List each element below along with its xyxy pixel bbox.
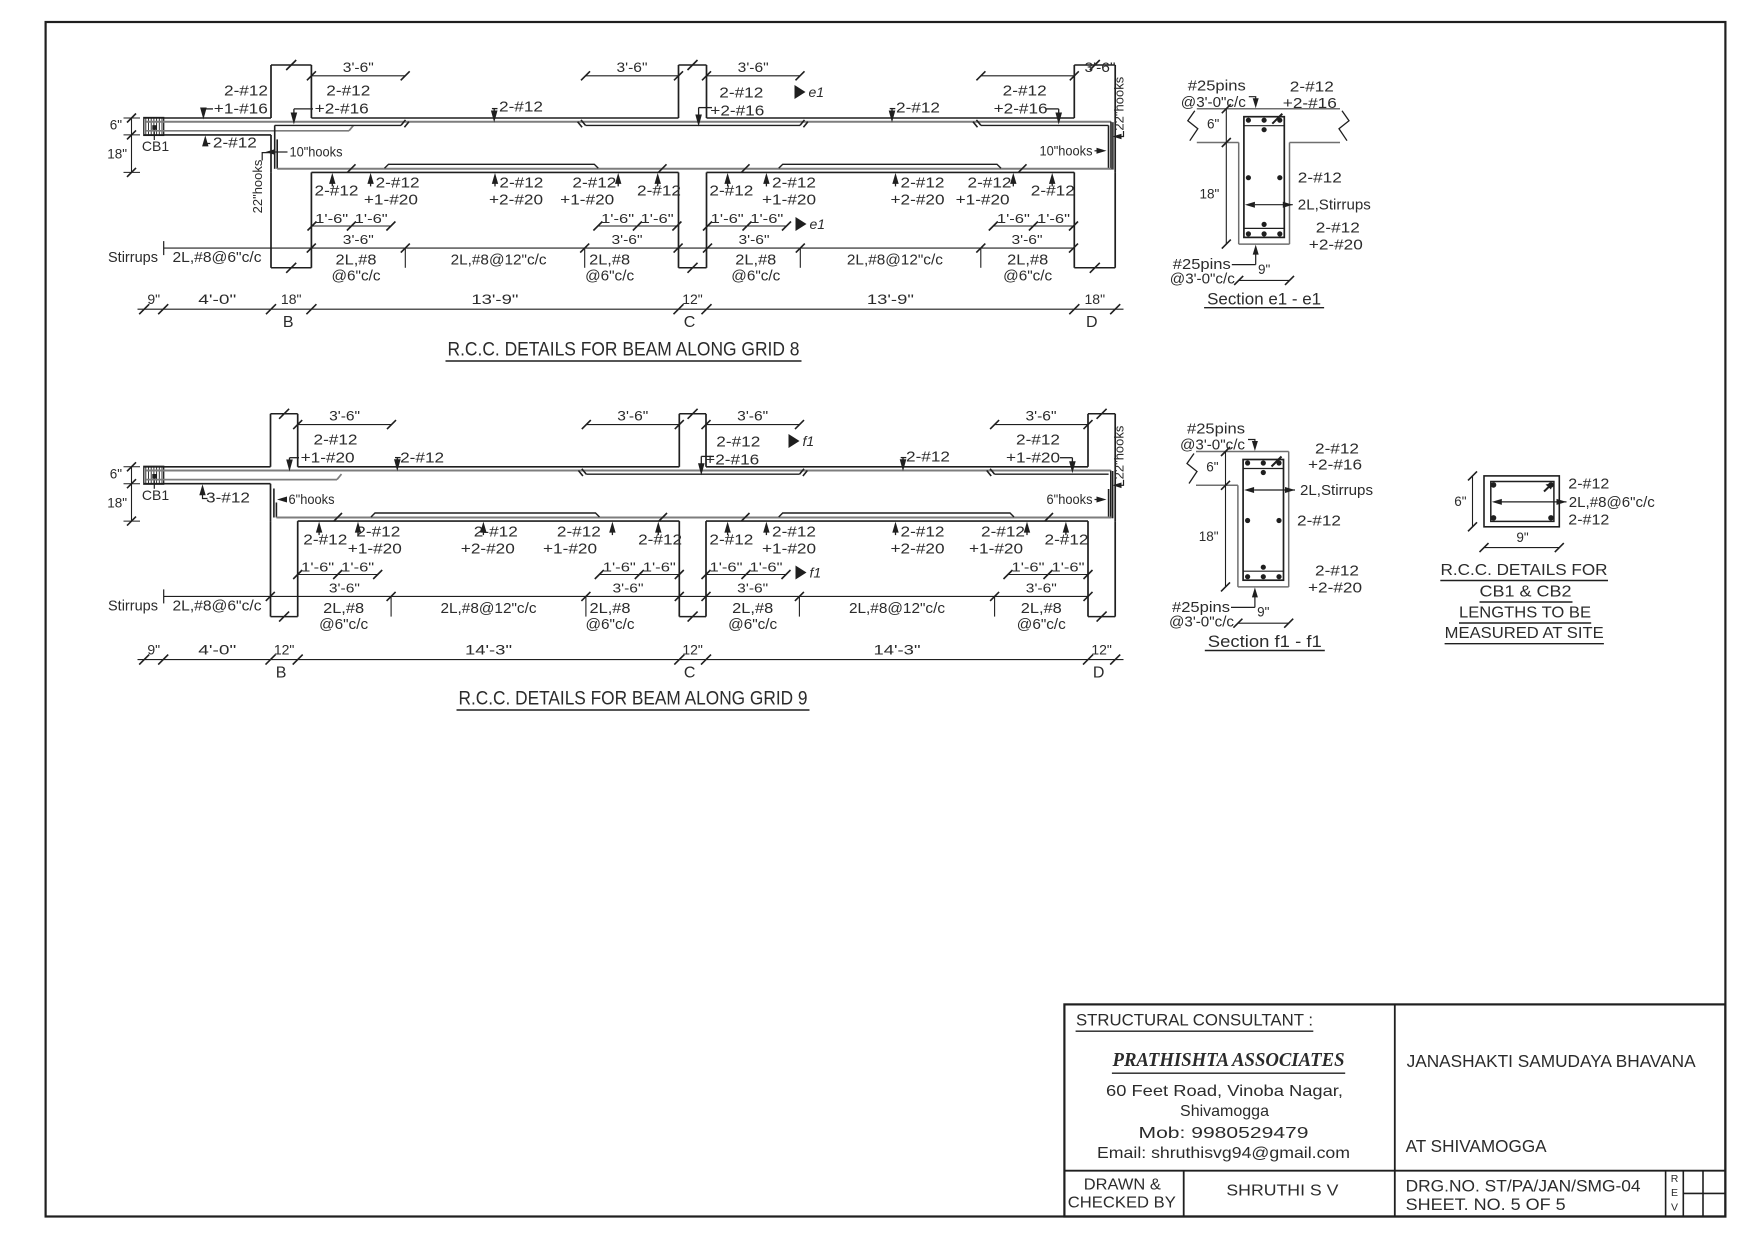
svg-text:10"hooks: 10"hooks [290, 144, 343, 160]
svg-text:+1-#20: +1-#20 [560, 192, 614, 209]
svg-text:2-#12: 2-#12 [968, 175, 1012, 192]
grid 9 dimension 1'-6"+1'-6" at x=599 [599, 574, 679, 576]
grid 8 column B left edge below cantilever [270, 135, 272, 173]
grid 8 column B [270, 65, 272, 118]
svg-text:2-#12: 2-#12 [1298, 170, 1342, 187]
svg-text:22"hooks: 22"hooks [1112, 76, 1127, 130]
svg-text:+2-#20: +2-#20 [461, 540, 515, 557]
svg-text:2-#12: 2-#12 [1315, 562, 1359, 579]
svg-text:+2-#16: +2-#16 [710, 103, 764, 120]
svg-text:+1-#20: +1-#20 [1006, 449, 1060, 466]
grid 8 section marker e1 [796, 217, 807, 231]
svg-text:3'-6": 3'-6" [739, 232, 770, 247]
svg-text:Stirrups: Stirrups [108, 598, 158, 614]
grid 8 bottom second-layer bars span B-C [385, 164, 599, 168]
svg-text:18": 18" [281, 291, 302, 307]
svg-text:@6"c/c: @6"c/c [731, 269, 780, 285]
svg-text:+2-#20: +2-#20 [489, 192, 543, 209]
svg-text:CHECKED BY: CHECKED BY [1068, 1195, 1176, 1212]
svg-text:9": 9" [1516, 530, 1529, 545]
section e1 6 inch dim [1225, 109, 1227, 244]
svg-text:2-#12: 2-#12 [1315, 441, 1359, 458]
grid 8 cantilever bottom bars label 2-#12 [202, 135, 208, 146]
svg-text:2-#12: 2-#12 [400, 449, 444, 466]
svg-text:+2-#16: +2-#16 [705, 451, 759, 468]
svg-text:2L,#8: 2L,#8 [1021, 601, 1062, 617]
grid 9 section marker f1 [796, 566, 807, 580]
CB detail top bar bend arrow [1544, 484, 1552, 491]
svg-text:9": 9" [147, 642, 160, 658]
grid 9 top dimension 3'-6" right of B [298, 424, 392, 426]
grid 8 top rebar line [146, 121, 1111, 123]
section f1 top rebar dots [1245, 460, 1250, 465]
svg-text:@3'-0"c/c: @3'-0"c/c [1170, 272, 1235, 288]
svg-text:R.C.C. DETAILS FOR BEAM ALONG: R.C.C. DETAILS FOR BEAM ALONG GRID 9 [459, 688, 808, 710]
svg-text:3'-6": 3'-6" [738, 60, 769, 75]
svg-text:@6"c/c: @6"c/c [332, 269, 381, 285]
svg-text:+2-#16: +2-#16 [1283, 95, 1337, 112]
svg-text:3'-6": 3'-6" [612, 232, 643, 247]
svg-text:3'-6": 3'-6" [329, 409, 360, 424]
section e1 inner stirrup lines [1244, 125, 1284, 127]
grid 8 cantilever bottom line [144, 134, 271, 136]
grid 8 dimension 1'-6"+1'-6" at x=708 [708, 225, 787, 227]
grid 9 column C [678, 414, 680, 467]
grid 9 stirrup zones dimension line [164, 595, 1088, 597]
CB detail 6 inch dim [1472, 476, 1474, 527]
svg-text:1'-6": 1'-6" [1037, 211, 1070, 226]
svg-text:3'-6": 3'-6" [613, 580, 644, 595]
svg-text:+2-#20: +2-#20 [891, 192, 945, 209]
section e1 2L,Stirrups label with arrows [1245, 202, 1255, 208]
grid 9 cantilever block CB1 hatched [144, 466, 164, 484]
grid 9 left hooks label 6"hooks [277, 497, 287, 503]
CB detail stirrup label 2L,#8@6"c/c with arrows [1492, 499, 1502, 505]
section f1 web outline [1237, 485, 1239, 587]
svg-text:R: R [1671, 1173, 1679, 1185]
svg-text:2L,#8: 2L,#8 [323, 601, 364, 617]
svg-text:CB1: CB1 [142, 487, 169, 503]
svg-text:2L,Stirrups: 2L,Stirrups [1300, 482, 1373, 499]
svg-text:V: V [1671, 1202, 1678, 1214]
svg-text:R.C.C. DETAILS FOR BEAM ALONG: R.C.C. DETAILS FOR BEAM ALONG GRID 8 [448, 339, 800, 361]
svg-text:2L,#8: 2L,#8 [735, 253, 776, 269]
grid 9 extra top bars over C with bends [586, 473, 799, 475]
svg-text:2-#12: 2-#12 [224, 83, 268, 100]
svg-text:60 Feet Road, Vinoba Nagar,: 60 Feet Road, Vinoba Nagar, [1106, 1083, 1343, 1100]
section e1 bottom rebar dots [1246, 231, 1251, 236]
svg-text:B: B [283, 314, 294, 331]
section f1 second top bar dot [1261, 470, 1266, 475]
svg-text:2L,#8@6"c/c: 2L,#8@6"c/c [173, 598, 262, 614]
svg-text:9": 9" [1257, 605, 1270, 620]
svg-text:JANASHAKTI SAMUDAYA BHAVANA: JANASHAKTI SAMUDAYA BHAVANA [1407, 1051, 1696, 1071]
svg-text:Stirrups: Stirrups [108, 250, 158, 266]
svg-text:@6"c/c: @6"c/c [728, 617, 777, 633]
svg-text:@6"c/c: @6"c/c [586, 617, 635, 633]
grid 8 bottom rebar line [277, 168, 1111, 170]
svg-text:12": 12" [274, 642, 295, 658]
svg-text:14'-3": 14'-3" [874, 642, 921, 658]
grid 8 bottom dimension line [138, 308, 1124, 310]
grid 9 extra top bars over D with hook down [995, 473, 1109, 475]
svg-text:3'-6": 3'-6" [343, 232, 374, 247]
svg-text:22"hooks: 22"hooks [1112, 425, 1127, 479]
svg-text:22"hooks: 22"hooks [250, 159, 265, 213]
CB detail stirrup rectangle [1491, 482, 1554, 522]
section e1 top rebar dots [1246, 118, 1251, 123]
svg-text:2-#12: 2-#12 [716, 433, 760, 450]
svg-text:2-#12: 2-#12 [906, 448, 950, 465]
svg-text:+1-#16: +1-#16 [214, 101, 268, 118]
svg-text:@6"c/c: @6"c/c [319, 617, 368, 633]
grid 9 dimension 1'-6"+1'-6" at x=1008 [1008, 574, 1088, 576]
svg-text:2-#12: 2-#12 [326, 83, 370, 100]
svg-text:1'-6": 1'-6" [643, 560, 676, 575]
grid 9 cantilever bottom line [144, 483, 271, 485]
svg-text:2-#12: 2-#12 [1316, 220, 1360, 237]
grid 9 bottom second-layer bars span C-D [779, 513, 1014, 517]
section e1 stirrup rectangle [1244, 117, 1284, 238]
section f1 slab break mark left [1187, 454, 1197, 484]
svg-text:2-#12: 2-#12 [1016, 431, 1060, 448]
section e1 slab break mark left [1188, 111, 1198, 141]
svg-text:18": 18" [1199, 186, 1219, 201]
svg-text:2-#12: 2-#12 [474, 523, 518, 540]
grid 8 CB1 label + leader [153, 128, 155, 140]
section e1 9 inch bottom dim [1239, 279, 1290, 281]
section f1 inner stirrup lines [1243, 468, 1283, 470]
svg-text:1'-6": 1'-6" [1012, 560, 1045, 575]
svg-text:2-#12: 2-#12 [499, 99, 543, 116]
svg-text:3'-6": 3'-6" [1085, 60, 1116, 75]
svg-text:2L,#8@6"c/c: 2L,#8@6"c/c [173, 250, 262, 266]
svg-text:2-#12: 2-#12 [709, 531, 753, 548]
svg-text:6": 6" [1454, 494, 1467, 509]
grid 8 cantilever rebar lap line with bend [146, 130, 349, 132]
svg-text:1'-6": 1'-6" [750, 560, 783, 575]
section f1 slab top line [1196, 451, 1289, 453]
svg-text:6": 6" [110, 466, 123, 481]
svg-text:3'-6": 3'-6" [329, 580, 360, 595]
svg-text:2L,#8: 2L,#8 [590, 601, 631, 617]
grid 8 bar lap ticks on bottom rebar [348, 164, 356, 172]
svg-text:1'-6": 1'-6" [1052, 560, 1085, 575]
grid 8 section marker e1 [795, 85, 806, 99]
svg-text:B: B [276, 665, 287, 682]
svg-text:Shivamogga: Shivamogga [1180, 1103, 1269, 1120]
section e1 second top bar dot [1262, 127, 1267, 132]
svg-text:C: C [684, 665, 696, 682]
svg-text:+2-#20: +2-#20 [1309, 237, 1363, 254]
svg-text:18": 18" [107, 495, 127, 510]
svg-text:R.C.C. DETAILS FOR: R.C.C. DETAILS FOR [1441, 562, 1608, 579]
svg-text:+2-#20: +2-#20 [1308, 579, 1362, 596]
grid 9 top dimension 3'-6" left of C [586, 424, 679, 426]
grid 8 right hooks label 10"hooks [1097, 148, 1107, 154]
svg-text:+1-#20: +1-#20 [969, 540, 1023, 557]
svg-text:E: E [1671, 1187, 1678, 1199]
grid 9 cantilever rebar lap line with bend [146, 479, 337, 481]
svg-text:1'-6": 1'-6" [997, 211, 1030, 226]
svg-text:2-#12: 2-#12 [772, 523, 816, 540]
svg-text:2-#12: 2-#12 [901, 523, 945, 540]
svg-text:2-#12: 2-#12 [356, 523, 400, 540]
svg-text:6"hooks: 6"hooks [289, 491, 335, 507]
svg-text:12": 12" [1091, 642, 1112, 658]
svg-text:10"hooks: 10"hooks [1040, 142, 1093, 158]
section e1 top bent bar tick [1272, 114, 1282, 124]
svg-text:D: D [1086, 314, 1098, 331]
grid 8 stirrup zones dimension line [164, 247, 1074, 249]
svg-text:1'-6": 1'-6" [641, 211, 674, 226]
svg-text:e1: e1 [810, 216, 826, 232]
svg-text:2-#12: 2-#12 [896, 100, 940, 117]
grid 8 dimension 1'-6"+1'-6" at x=312 [312, 225, 391, 227]
grid 8 top dimension 3'-6" right of B [311, 75, 405, 77]
svg-text:+1-#20: +1-#20 [364, 192, 418, 209]
grid 9 bar lap ticks on bottom rebar [334, 513, 342, 521]
grid 8 extra top bars over C with bends [586, 124, 801, 126]
grid 9 dimension 1'-6"+1'-6" at x=706 [706, 574, 786, 576]
svg-text:+2-#16: +2-#16 [1308, 457, 1362, 474]
svg-text:2-#12: 2-#12 [901, 175, 945, 192]
section f1 2L,Stirrups label with arrows [1244, 487, 1254, 493]
grid 8 column D [1073, 65, 1075, 118]
svg-text:@3'-0"c/c: @3'-0"c/c [1180, 438, 1245, 454]
svg-text:+1-#20: +1-#20 [543, 540, 597, 557]
svg-text:DRAWN &: DRAWN & [1084, 1177, 1161, 1194]
grid 9 dimension 1'-6"+1'-6" at x=298 [298, 574, 378, 576]
svg-text:18": 18" [1199, 529, 1219, 544]
svg-text:9": 9" [147, 291, 160, 307]
grid 9 hook at column B (vertical) [273, 489, 275, 518]
svg-text:CB1 & CB2: CB1 & CB2 [1480, 583, 1572, 600]
title block drawn-by divider [1183, 1171, 1185, 1217]
section f1 9 inch bottom dim [1238, 622, 1289, 624]
grid 9 CB1 label + leader [153, 477, 155, 489]
CB detail outer rectangle [1484, 476, 1559, 527]
svg-text:1'-6": 1'-6" [711, 211, 744, 226]
grid 8 top dimension 3'-6" left of C [586, 75, 679, 77]
svg-text:@3'-0"c/c: @3'-0"c/c [1169, 614, 1234, 630]
svg-text:2L,#8@12"c/c: 2L,#8@12"c/c [849, 601, 945, 617]
svg-text:+1-#20: +1-#20 [762, 540, 816, 557]
svg-text:6": 6" [1206, 460, 1219, 475]
svg-text:+1-#20: +1-#20 [956, 192, 1010, 209]
section e1 lower single bar dot [1262, 222, 1267, 227]
svg-text:2L,#8: 2L,#8 [732, 601, 773, 617]
svg-text:2-#12: 2-#12 [1568, 476, 1609, 493]
svg-text:13'-9": 13'-9" [471, 291, 518, 307]
svg-text:1'-6": 1'-6" [355, 211, 388, 226]
grid 9 column B left edge below cantilever [270, 484, 272, 521]
svg-text:2-#12: 2-#12 [499, 175, 543, 192]
title block outer box [1064, 1004, 1725, 1216]
grid 9 bottom dimension line [138, 659, 1124, 661]
svg-text:2-#12: 2-#12 [376, 175, 420, 192]
svg-text:2-#12: 2-#12 [772, 175, 816, 192]
svg-text:+2-#16: +2-#16 [315, 101, 369, 118]
svg-text:9": 9" [1258, 262, 1271, 277]
grid 8 top dimension 3'-6" left of D [981, 75, 1074, 77]
grid 8 cantilever block CB1 hatched [144, 118, 164, 136]
svg-text:3'-6": 3'-6" [1012, 232, 1043, 247]
grid 8 extra top bars over B with hook down [275, 124, 401, 126]
svg-text:3'-6": 3'-6" [343, 60, 374, 75]
svg-text:12": 12" [682, 291, 703, 307]
title block vertical divider [1394, 1004, 1396, 1216]
CB detail 9 inch dim [1484, 547, 1559, 549]
svg-text:e1: e1 [809, 84, 825, 100]
svg-text:3'-6": 3'-6" [617, 409, 648, 424]
svg-text:18": 18" [107, 147, 127, 162]
svg-text:@6"c/c: @6"c/c [1003, 269, 1052, 285]
grid 9 right hooks label 6"hooks [1097, 497, 1107, 503]
grid 9 section marker f1 [789, 434, 800, 448]
svg-text:2-#12: 2-#12 [637, 183, 681, 200]
svg-text:2-#12: 2-#12 [638, 531, 682, 548]
svg-text:14'-3": 14'-3" [465, 642, 512, 658]
svg-text:Mob: 9980529479: Mob: 9980529479 [1139, 1125, 1309, 1142]
svg-text:18": 18" [1085, 291, 1106, 307]
grid 8 beam top line [144, 117, 271, 119]
section e1 web outline [1238, 143, 1240, 245]
grid 8 left hooks label 10"hooks [266, 149, 276, 155]
grid 8 dimension 1'-6"+1'-6" at x=993 [993, 225, 1073, 227]
grid 9 column D right edge full height [1114, 467, 1116, 521]
svg-text:3-#12: 3-#12 [206, 490, 250, 507]
svg-text:f1: f1 [810, 565, 822, 581]
svg-text:3'-6": 3'-6" [737, 580, 768, 595]
svg-text:@6"c/c: @6"c/c [1017, 617, 1066, 633]
grid 9 beam top line [144, 466, 271, 468]
svg-text:#25pins: #25pins [1187, 421, 1245, 437]
grid 8 dimension 1'-6"+1'-6" at x=598 [598, 225, 677, 227]
svg-text:2-#12: 2-#12 [315, 183, 359, 200]
svg-text:2-#12: 2-#12 [1297, 513, 1341, 530]
svg-text:2-#12: 2-#12 [1290, 79, 1334, 96]
svg-text:13'-9": 13'-9" [867, 291, 914, 307]
svg-text:3'-6": 3'-6" [1026, 409, 1057, 424]
svg-text:12": 12" [682, 642, 703, 658]
grid 8 extra top bars over D with hook down [981, 124, 1109, 126]
section f1 stirrup rectangle [1243, 460, 1283, 581]
svg-text:SHEET. NO. 5 OF 5: SHEET. NO. 5 OF 5 [1406, 1196, 1566, 1214]
svg-text:DRG.NO. ST/PA/JAN/SMG-04: DRG.NO. ST/PA/JAN/SMG-04 [1406, 1177, 1641, 1195]
grid 8 hooks at right end (column D) [1108, 125, 1110, 168]
grid 9 column B [270, 414, 272, 467]
svg-text:2-#12: 2-#12 [314, 431, 358, 448]
svg-text:C: C [684, 314, 696, 331]
svg-text:6"hooks: 6"hooks [1047, 491, 1093, 507]
svg-text:2L,#8: 2L,#8 [589, 253, 630, 269]
svg-text:Section f1 - f1: Section f1 - f1 [1208, 633, 1322, 651]
svg-text:@3'-0"c/c: @3'-0"c/c [1181, 95, 1246, 111]
grid 9 cantilever bottom bars label 3-#12 [199, 484, 205, 495]
svg-text:LENGTHS TO BE: LENGTHS TO BE [1459, 604, 1591, 621]
svg-text:2L,#8@6"c/c: 2L,#8@6"c/c [1569, 494, 1655, 511]
svg-text:1'-6": 1'-6" [603, 560, 636, 575]
title block bottom row divider [1064, 1170, 1725, 1172]
svg-text:Email: shruthisvg94@gmail.com: Email: shruthisvg94@gmail.com [1097, 1145, 1350, 1162]
svg-text:1'-6": 1'-6" [750, 211, 783, 226]
svg-text:6": 6" [110, 118, 123, 133]
svg-text:2-#12: 2-#12 [213, 135, 257, 152]
svg-text:PRATHISHTA ASSOCIATES: PRATHISHTA ASSOCIATES [1112, 1050, 1345, 1071]
grid 8 bottom second-layer bars span C-D [779, 164, 1001, 168]
svg-text:2L,#8: 2L,#8 [336, 253, 377, 269]
grid 8 left dimension 6" and 18" [131, 118, 133, 173]
svg-text:1'-6": 1'-6" [601, 211, 634, 226]
svg-text:STRUCTURAL CONSULTANT :: STRUCTURAL CONSULTANT : [1076, 1011, 1313, 1029]
grid 8 column D right edge full height [1114, 118, 1116, 172]
svg-text:2-#12: 2-#12 [719, 85, 763, 102]
svg-text:+1-#20: +1-#20 [348, 540, 402, 557]
REV box dividers [1665, 1171, 1667, 1217]
svg-text:2L,#8: 2L,#8 [1007, 253, 1048, 269]
svg-text:2-#12: 2-#12 [1568, 512, 1609, 529]
grid 8 hook at column B (vertical) [274, 125, 276, 168]
svg-text:Section e1 - e1: Section e1 - e1 [1207, 290, 1321, 308]
grid 9 hooks at right end (column D) [1108, 489, 1110, 518]
svg-text:2-#12: 2-#12 [709, 183, 753, 200]
grid 8 column C [678, 65, 680, 118]
grid 8 beam soffit line [311, 171, 678, 173]
svg-text:MEASURED AT SITE: MEASURED AT SITE [1445, 625, 1604, 642]
svg-text:+1-#20: +1-#20 [762, 192, 816, 209]
section f1 middle side bar dots [1245, 518, 1250, 523]
svg-text:2L,Stirrups: 2L,Stirrups [1298, 197, 1371, 214]
svg-text:@6"c/c: @6"c/c [585, 269, 634, 285]
section e1 middle side bar dots [1246, 175, 1251, 180]
svg-text:CB1: CB1 [142, 138, 169, 154]
svg-text:3'-6": 3'-6" [617, 60, 648, 75]
grid 9 beam soffit line [298, 520, 680, 522]
grid 9 column D [1087, 414, 1089, 467]
section e1 slab top line [1197, 108, 1340, 110]
grid 9 bottom second-layer bars span B-C [371, 513, 600, 517]
grid 9 top dimension 3'-6" right of C [706, 424, 800, 426]
grid 9 top rebar line [146, 470, 1111, 472]
svg-text:D: D [1093, 665, 1105, 682]
grid 8 top dimension 3'-6" right of C [707, 75, 801, 77]
svg-text:3'-6": 3'-6" [1026, 580, 1057, 595]
svg-text:2-#12: 2-#12 [572, 175, 616, 192]
grid 9 top dimension 3'-6" left of D [995, 424, 1088, 426]
grid 9 bottom rebar line [276, 517, 1110, 519]
section f1 6 inch dim [1225, 452, 1227, 587]
svg-text:AT SHIVAMOGGA: AT SHIVAMOGGA [1406, 1136, 1547, 1156]
svg-text:#25pins: #25pins [1188, 79, 1246, 95]
svg-text:3'-6": 3'-6" [737, 409, 768, 424]
svg-text:+2-#20: +2-#20 [891, 540, 945, 557]
svg-text:SHRUTHI S V: SHRUTHI S V [1226, 1182, 1338, 1199]
svg-text:+2-#16: +2-#16 [994, 101, 1048, 118]
svg-text:1'-6": 1'-6" [315, 211, 348, 226]
svg-text:2L,#8@12"c/c: 2L,#8@12"c/c [847, 253, 943, 269]
svg-text:2-#12: 2-#12 [303, 531, 347, 548]
svg-text:+1-#20: +1-#20 [301, 449, 355, 466]
svg-text:1'-6": 1'-6" [301, 560, 334, 575]
svg-text:2-#12: 2-#12 [981, 523, 1025, 540]
svg-text:1'-6": 1'-6" [710, 560, 743, 575]
grid 9 left dimension 6" and 18" [131, 466, 133, 521]
svg-text:4'-0": 4'-0" [198, 642, 236, 658]
section f1 bottom rebar dots [1245, 574, 1250, 579]
section f1 lower single bar dot [1261, 565, 1266, 570]
svg-text:2-#12: 2-#12 [557, 523, 601, 540]
